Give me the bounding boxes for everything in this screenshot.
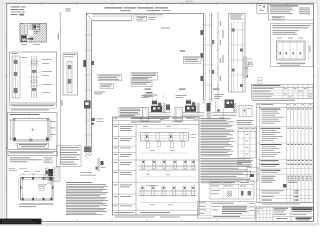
dimension arrows [10, 119, 12, 141]
stile tick marks [85, 34, 93, 36]
right top info box [269, 4, 314, 20]
callout box 1 [92, 70, 122, 81]
note box middle 1 [131, 73, 158, 81]
frame tick marks bottom [42, 220, 217, 222]
einbau header box [8, 151, 58, 155]
black label bar bottom-left [0, 219, 41, 225]
window top rail [86, 10, 203, 21]
einbau text lines [10, 157, 52, 162]
callout box 2 [100, 84, 114, 89]
dimension line right member [217, 12, 224, 99]
notes box left of title block [198, 202, 256, 219]
text under small table [237, 159, 253, 162]
mini elevation [277, 41, 306, 60]
caption under summary table [252, 99, 295, 102]
stile fittings [83, 60, 86, 67]
main vertical dimension line [58, 12, 63, 164]
anchor detail small [96, 158, 106, 172]
hardware squares top/bottom [22, 177, 52, 200]
left panel 1 (vertical section details) [10, 52, 57, 103]
captions below [19, 203, 54, 206]
left tiny texts near elevation [9, 167, 15, 170]
hatched strip detail [12, 56, 20, 98]
parts list table [257, 103, 313, 202]
right vertical member (mullion section) [200, 13, 214, 104]
maintenance notes text block [66, 182, 108, 215]
header rows [112, 120, 199, 122]
small sketch box right column mid [239, 105, 252, 117]
text above small table [237, 119, 254, 122]
leader circles above [23, 173, 25, 175]
left panel 2 (window schematic) [8, 113, 58, 150]
frame tick marks sides [5, 40, 315, 184]
vertical detail under schematic box [244, 57, 253, 78]
left col dividers [117, 125, 119, 215]
drawing B in panel [139, 160, 197, 177]
drawing A in panel [140, 126, 197, 153]
break at bottom [203, 99, 206, 104]
centre member detail [33, 56, 35, 99]
middle section [273, 213, 291, 215]
right schematic box [270, 24, 313, 67]
small panel right (63,53) [63, 53, 78, 95]
caption box of panel 2 [18, 143, 49, 148]
centre label [38, 184, 47, 187]
labels in panel [42, 58, 52, 61]
right top compass box [257, 4, 268, 13]
list box mid-left [57, 146, 82, 167]
small stacked marks above summary table [258, 78, 263, 81]
arrow marker [28, 37, 34, 40]
parts table footer row [257, 203, 313, 205]
rail segment right of break [134, 14, 163, 16]
anchor sketch right of notes [247, 168, 258, 182]
corner fittings [14, 119, 16, 121]
small marks right of list box [84, 147, 92, 150]
middle big panel [112, 117, 199, 215]
notes text block right of panel [201, 118, 252, 183]
right section [292, 208, 313, 209]
left col texts [114, 126, 171, 213]
frame tick marks top [42, 3, 287, 5]
tall elevation strip right [229, 13, 245, 92]
section details row: detail 1-1 right [207, 89, 237, 120]
dim text below hatched box [21, 43, 27, 46]
section details row: detail B-B [141, 89, 171, 121]
fold mark box top [187, 1, 193, 3]
labels above mini elevation [277, 37, 282, 40]
top caption text [105, 6, 123, 9]
left dim line [17, 178, 19, 201]
caption under middle panel [115, 216, 155, 219]
dark section detail left [45, 167, 60, 183]
note text top-left [11, 7, 26, 16]
section label A-A mid [144, 92, 158, 97]
scan margins [0, 0, 320, 3]
dense numeric block [262, 175, 276, 178]
dim text in window interior [161, 27, 170, 30]
window left stile (vertical member) [80, 13, 104, 175]
Normteile list box [119, 108, 143, 117]
fitting top-right [33, 24, 40, 29]
frame profile part [25, 25, 28, 35]
1-1 label and note [180, 51, 203, 64]
detail marker box on rail [137, 16, 147, 21]
caption under panel 1 [10, 104, 57, 108]
hatched detail box top-left [20, 23, 46, 42]
mitre joint [86, 13, 92, 20]
dims right and below [308, 41, 310, 60]
drawing C in panel [139, 185, 197, 205]
leader texts above rail [120, 9, 131, 12]
summary table right (5 rows) [251, 84, 313, 98]
small table right column mid [238, 127, 256, 158]
small label text [94, 91, 105, 94]
schematic frame [13, 119, 49, 142]
elevation drawing bottom-left [18, 169, 53, 208]
note box middle 2 [131, 81, 152, 87]
title block [256, 207, 313, 221]
elevation datum label [66, 9, 71, 12]
section details row: detail A-A mid [175, 89, 205, 121]
parts list rows [257, 109, 313, 201]
left margin fold line [4, 3, 6, 221]
small table above title block [210, 181, 254, 199]
fitting bottom-left [21, 35, 26, 41]
